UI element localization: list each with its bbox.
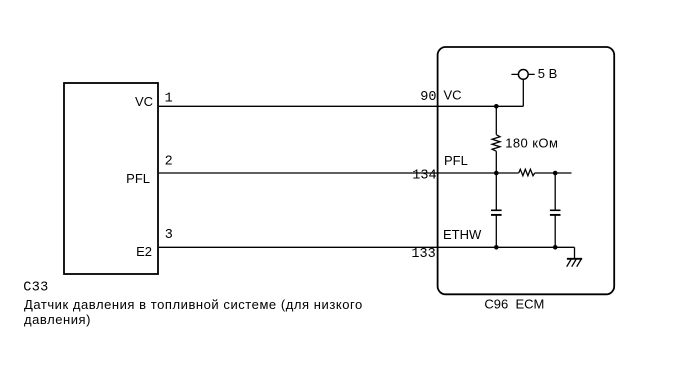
svg-text:5 В: 5 В (538, 66, 558, 81)
svg-text:3: 3 (165, 228, 173, 243)
svg-text:PFL: PFL (444, 153, 468, 168)
wire ETHW to ground (574, 247, 576, 258)
capacitor C1 (491, 210, 502, 215)
wire resistor to PFL node (495, 151, 497, 173)
resistor (series, PFL filter) (519, 169, 535, 175)
wire VC (C33 pin1 to ECM pin 90) (159, 105, 523, 107)
ECM C96 box (438, 47, 615, 294)
svg-text:давления): давления) (24, 312, 91, 327)
junction ETHW node C1 (494, 245, 499, 250)
wire PFL (C33 pin2 to ECM pin 134) (159, 172, 519, 174)
wire VC node to resistor (495, 106, 497, 134)
svg-text:VC: VC (444, 88, 462, 103)
wire node B to capacitor C2 (554, 173, 556, 210)
svg-text:180 кОм: 180 кОм (505, 136, 558, 151)
svg-text:134: 134 (412, 168, 436, 183)
junction node B (553, 171, 558, 176)
svg-text:133: 133 (411, 247, 435, 262)
svg-text:Датчик давления в топливной си: Датчик давления в топливной системе (для… (24, 297, 363, 312)
wire 5V supply drop (522, 80, 524, 107)
wire PFL node to capacitor C1 (495, 173, 497, 210)
svg-text:E2: E2 (136, 244, 152, 259)
junction PFL node A (494, 171, 499, 176)
svg-text:C96 ECM: C96 ECM (484, 296, 544, 311)
ground symbol (567, 259, 583, 267)
svg-text:PFL: PFL (126, 171, 150, 186)
supply terminal 5V bar (511, 73, 534, 75)
svg-text:1: 1 (165, 92, 173, 107)
svg-text:C33: C33 (23, 280, 48, 295)
wire ETHW (C33 pin3 to ECM pin 133) (159, 246, 575, 248)
junction ETHW node C2 (553, 245, 558, 250)
wire capacitor C2 to ETHW (554, 215, 556, 247)
supply terminal 5V circle (518, 70, 528, 80)
capacitor C2 (550, 210, 561, 215)
svg-text:ETHW: ETHW (443, 227, 482, 242)
svg-text:90: 90 (420, 90, 436, 105)
svg-text:VC: VC (135, 94, 153, 109)
svg-text:2: 2 (165, 155, 173, 170)
wire resistor to node B (535, 172, 572, 174)
wire capacitor C1 to ETHW (495, 215, 497, 247)
junction VC node (494, 104, 499, 109)
resistor 180 kOhm (pull-up) (492, 135, 500, 152)
connector C33 box (64, 83, 158, 274)
